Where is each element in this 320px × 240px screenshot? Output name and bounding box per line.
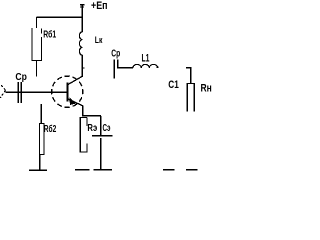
resistor Rn body (open bottom) (187, 84, 194, 112)
svg-text:Rб1: Rб1 (43, 29, 56, 41)
wire Cp to L1 (118, 67, 133, 69)
capacitor Ce bottom lead (100, 138, 102, 170)
supply terminal ticks (80, 4, 85, 6)
capacitor Ce top lead (100, 116, 102, 135)
resistor Re body (80, 117, 88, 151)
svg-text:Rэ: Rэ (87, 123, 97, 134)
inductor Lk coil (79, 32, 82, 55)
emitter vertical wire (82, 106, 84, 117)
wire input to base (6, 91, 67, 93)
resistor Rn top lead (190, 68, 192, 84)
capacitor C_p input plates (17, 82, 19, 103)
svg-text:Lк: Lк (95, 35, 103, 46)
ground bar under Ce (94, 169, 113, 171)
resistor R62 top lead (40, 104, 42, 124)
emitter diagonal (68, 99, 83, 106)
svg-text:C1: C1 (168, 79, 179, 91)
collector diagonal (68, 76, 82, 84)
resistor R61 bottom lead (36, 61, 38, 77)
transistor base bar (66, 83, 68, 102)
svg-text:Rн: Rн (201, 83, 212, 95)
svg-text:+Еп: +Еп (91, 0, 108, 12)
ground dash under C1 (163, 169, 175, 171)
resistor Rn top tick (186, 67, 192, 69)
input terminal chevron (0, 85, 5, 98)
top supply wire (37, 16, 83, 18)
svg-text:L1: L1 (142, 53, 150, 65)
ground dash under Rn (186, 169, 198, 171)
resistor R62 body (40, 124, 44, 155)
resistor R62 bottom lead (39, 155, 41, 170)
emitter horizontal wire (83, 115, 101, 117)
capacitor Cp output plates (113, 59, 115, 78)
inductor L1 coil (133, 64, 158, 67)
collector vertical wire lower (81, 55, 83, 77)
ground bar under Re (75, 169, 90, 171)
emitter arrowhead (69, 97, 76, 105)
capacitor Ce top plate (92, 135, 112, 137)
transistor VT dashed circle (52, 76, 83, 107)
svg-text:Сэ: Сэ (103, 123, 111, 134)
resistor R61 top lead (36, 17, 38, 28)
collector vertical wire upper (81, 5, 83, 32)
svg-text:Rб2: Rб2 (44, 123, 57, 135)
coil bottom tick (82, 67, 84, 69)
L1 right end dot (157, 66, 159, 68)
svg-text:Ср: Ср (15, 72, 27, 83)
svg-text:Ср: Ср (111, 48, 120, 59)
ground bar under R62 (29, 169, 47, 171)
resistor R61 body (31, 28, 42, 60)
